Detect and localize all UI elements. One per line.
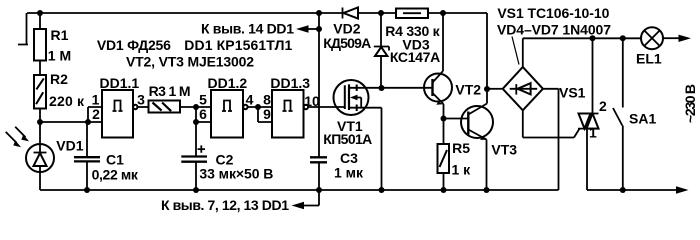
- wire bridge bottom to triac gate: [523, 110, 580, 137]
- gate DD1.3: [263, 75, 320, 138]
- node SA1 top junction: [620, 35, 626, 41]
- wire R3 to DD1.2 input pin5: [180, 106, 211, 108]
- wire collectors to bridge left: [487, 88, 503, 90]
- node VT2 collector rail junction: [440, 10, 446, 16]
- svg-text:VT2: VT2: [455, 82, 481, 98]
- capacitor C2 electrolytic: [181, 145, 273, 190]
- svg-text:1 мк: 1 мк: [334, 165, 364, 181]
- svg-text:КС147А: КС147А: [390, 49, 440, 65]
- transistor VT2: [424, 13, 481, 119]
- svg-text:КД509А: КД509А: [323, 35, 371, 51]
- svg-text:VD4–VD7 1N4007: VD4–VD7 1N4007: [497, 22, 611, 38]
- arrow to DD1 pins 7 12 13: [161, 190, 319, 213]
- svg-text:EL1: EL1: [636, 51, 662, 67]
- node DD1 pin14 tap: [316, 26, 322, 32]
- svg-text:VS1 ТС106-10-10: VS1 ТС106-10-10: [497, 5, 609, 21]
- svg-text:2: 2: [92, 106, 100, 122]
- wire DD1.3 input tie pin9: [258, 107, 272, 122]
- svg-text:~230 В: ~230 В: [682, 84, 698, 123]
- svg-text:DD1.1: DD1.1: [100, 75, 140, 91]
- switch SA1: [613, 38, 656, 190]
- node R5 ground junction: [441, 187, 447, 193]
- svg-text:9: 9: [263, 106, 271, 122]
- svg-text:33 мк×50 В: 33 мк×50 В: [199, 166, 273, 182]
- svg-text:C1: C1: [106, 152, 124, 168]
- resistor R1: [34, 13, 71, 75]
- bridge rectifier VD4-VD7: [503, 67, 543, 110]
- light arrows into VD1: [6, 127, 29, 147]
- wire VT1 drain to VT2 base: [369, 87, 433, 89]
- capacitor C1: [74, 122, 139, 190]
- node DD1.1 input junction: [85, 119, 91, 125]
- wire VT1 source to ground: [381, 108, 383, 190]
- node R1 top junction: [37, 10, 43, 16]
- wire bridge right to ground rail: [543, 89, 559, 190]
- resistor R4: [385, 9, 440, 40]
- node C2 ground junction: [193, 187, 199, 193]
- wire VD1/R2 node to DD1.1 input pin2: [40, 121, 102, 123]
- wire mains bottom line: [587, 189, 677, 191]
- svg-text:R4 330 к: R4 330 к: [385, 23, 440, 39]
- gate DD1.2: [199, 75, 254, 138]
- svg-text:VD1: VD1: [56, 138, 83, 154]
- wire bottom ground rail: [40, 189, 559, 191]
- node SA1 bottom junction: [620, 187, 626, 193]
- triac VS1: [559, 38, 607, 190]
- node supply rail branch: [316, 10, 322, 16]
- svg-text:1: 1: [589, 125, 597, 141]
- svg-text:1 к: 1 к: [452, 162, 472, 178]
- wire DD1.2 output to DD1.3 pin8: [248, 106, 272, 108]
- transistor VT1 MOSFET: [323, 80, 381, 147]
- wire DD1.1 output to R3: [138, 106, 149, 108]
- node DD1.2 pin6 junction: [193, 119, 199, 125]
- svg-text:1 М: 1 М: [48, 48, 71, 64]
- svg-text:2: 2: [599, 98, 607, 114]
- wire lamp to mains arrow top: [663, 37, 679, 39]
- node VD3 drain junction: [379, 85, 385, 91]
- svg-text:К выв. 14 DD1: К выв. 14 DD1: [201, 21, 294, 37]
- svg-text:КП501А: КП501А: [323, 131, 372, 147]
- diode VD2: [323, 8, 371, 52]
- wire supply rail down to collectors: [486, 13, 488, 89]
- svg-text:VD1 ФД256: VD1 ФД256: [97, 37, 171, 53]
- svg-text:SA1: SA1: [629, 111, 656, 127]
- svg-text:DD1.3: DD1.3: [270, 75, 310, 91]
- svg-text:R1: R1: [51, 27, 69, 43]
- svg-text:R5: R5: [452, 140, 470, 156]
- node VT3 collector junction: [484, 86, 490, 92]
- svg-text:VS1: VS1: [559, 85, 586, 101]
- svg-text:VT2, VT3 MJE13002: VT2, VT3 MJE13002: [126, 54, 254, 70]
- node triac T2 junction: [590, 35, 596, 41]
- svg-text:220 к: 220 к: [49, 93, 85, 109]
- node VT2 emitter VT3 base junction: [441, 116, 447, 122]
- node C1 ground junction: [84, 187, 90, 193]
- resistor R5: [438, 119, 472, 191]
- lamp EL1: [636, 27, 663, 66]
- leader line to bridge: [512, 37, 519, 65]
- svg-text:R2: R2: [50, 71, 68, 87]
- zener diode VD3: [374, 10, 440, 88]
- node DD1.3 input junction: [255, 104, 261, 110]
- arrow mains top: [679, 35, 692, 42]
- capacitor C3: [310, 150, 364, 190]
- svg-text:VT3: VT3: [491, 142, 517, 158]
- node R3/DD1.2 pin5 junction: [193, 104, 199, 110]
- arrow mains bottom: [676, 186, 689, 193]
- svg-text:0,22 мк: 0,22 мк: [92, 167, 139, 183]
- node R2/VD1 junction: [37, 119, 43, 125]
- wire DD1.3 output to VT1 gate: [308, 106, 345, 108]
- svg-text:К выв. 7, 12, 13 DD1: К выв. 7, 12, 13 DD1: [161, 197, 289, 213]
- resistor R3: [149, 83, 191, 113]
- wire DD1.1 input tie pin1: [88, 107, 102, 122]
- wire VT2 emitter to VT3 base: [444, 118, 469, 120]
- wire supply branch to C3: [318, 13, 320, 157]
- wire top supply rail: [27, 12, 487, 14]
- node VT1 source ground junction: [379, 187, 385, 193]
- resistor R2: [34, 71, 85, 122]
- wire bridge top to lamp line: [523, 38, 640, 67]
- terminal E1 touch plate: [18, 13, 28, 45]
- arrow to DD1 pin 14: [201, 21, 319, 37]
- photodiode VD1: [26, 122, 84, 190]
- svg-text:3: 3: [137, 92, 145, 108]
- svg-text:R3 1 М: R3 1 М: [149, 83, 191, 99]
- svg-text:DD1.2: DD1.2: [208, 75, 248, 91]
- wire DD1.2 input tie pin6 and C2: [196, 107, 211, 157]
- node VT3 emitter ground junction: [484, 187, 490, 193]
- transistor VT3: [461, 89, 517, 190]
- svg-text:6: 6: [199, 106, 207, 122]
- node C3 ground junction: [316, 187, 322, 193]
- svg-text:DD1 КР1561ТЛ1: DD1 КР1561ТЛ1: [184, 37, 292, 53]
- gate DD1.1: [92, 75, 146, 138]
